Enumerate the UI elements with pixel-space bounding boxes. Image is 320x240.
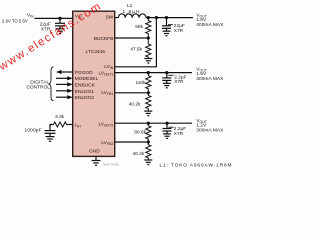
svg-text:L1: TOKO A960AW-1R8M: L1: TOKO A960AW-1R8M	[160, 163, 232, 169]
wire GND pin	[95, 156, 97, 160]
arrow PGOOD (out)	[56, 70, 73, 74]
ground R6	[144, 160, 152, 165]
arrow ENLDO1 (in)	[56, 89, 73, 93]
wire ITH	[67, 124, 73, 126]
svg-text:X7R: X7R	[174, 28, 184, 34]
resistor R5 80.6k	[134, 123, 151, 142]
capacitor CIN 22uF X7R	[40, 18, 65, 32]
wire LVOUT1 rail 1.5V	[115, 72, 192, 74]
ground CIN	[56, 29, 65, 34]
svg-text:MODESEL: MODESEL	[75, 76, 99, 82]
resistor R4 40.2k	[129, 93, 151, 111]
svg-text:ENLDO2: ENLDO2	[75, 95, 95, 101]
wire LVOUT2 rail 1.2V	[115, 122, 192, 124]
junction LVOUT2/R5	[147, 122, 150, 125]
arrow ENBUCK (in)	[56, 82, 73, 86]
brace digital control	[49, 67, 54, 101]
capacitor C4 1000pF	[25, 128, 56, 137]
junction rail/R1	[147, 16, 150, 19]
node VOUT 1.8V label	[196, 12, 224, 27]
svg-text:110k: 110k	[135, 80, 146, 86]
node VOUT 1.2V label	[196, 118, 224, 133]
arrow MODESEL (in)	[56, 76, 73, 80]
junction rail/LVIN drop	[155, 16, 158, 19]
capacitor COUT1 22uF X7R	[162, 18, 185, 34]
svg-text:GND: GND	[89, 148, 100, 154]
wire LVFB2	[115, 141, 149, 143]
svg-text:SW: SW	[106, 14, 114, 20]
svg-text:300mA MAX: 300mA MAX	[196, 127, 224, 133]
svg-text:ENBUCK: ENBUCK	[75, 82, 96, 88]
ground R2	[144, 59, 152, 64]
junction LVFB2 node	[147, 140, 150, 143]
svg-text:3446 TA01b: 3446 TA01b	[103, 163, 119, 167]
ground COUT1	[163, 31, 171, 36]
ground R4	[144, 111, 152, 116]
svg-text:2.9V TO 5.5V: 2.9V TO 5.5V	[2, 19, 28, 24]
wire BUCKFB	[115, 37, 149, 39]
capacitor C3 2.2uF X7R	[163, 123, 187, 137]
svg-text:L1: L1	[127, 3, 133, 9]
resistor R3 110k	[135, 73, 150, 93]
svg-text:PGOOD: PGOOD	[75, 70, 93, 76]
svg-text:X7R: X7R	[174, 79, 184, 85]
svg-text:400mA MAX: 400mA MAX	[196, 22, 224, 28]
svg-text:X7R: X7R	[174, 131, 184, 137]
svg-text:BUCKFB: BUCKFB	[94, 36, 113, 42]
svg-text:40.2k: 40.2k	[129, 102, 141, 108]
wire LVIN to 1.8V rail	[115, 18, 157, 67]
svg-text:59k: 59k	[135, 24, 143, 30]
label DIGITAL CONTROL	[26, 80, 50, 91]
junction LVFB1 node	[147, 91, 150, 94]
svg-text:CONTROL: CONTROL	[26, 85, 50, 91]
wire buck output rail 1.8V	[146, 17, 193, 19]
svg-text:40.2k: 40.2k	[133, 151, 145, 157]
resistor R1 59k	[135, 18, 151, 38]
svg-text:1000pF: 1000pF	[25, 128, 42, 134]
wire SW to inductor	[115, 17, 119, 19]
junction rail/COUT1	[165, 16, 168, 19]
ground C4	[46, 137, 55, 142]
junction VIN/CIN	[58, 17, 61, 20]
junction BUCKFB node	[147, 36, 150, 39]
resistor R6 40.2k	[133, 142, 151, 160]
resistor R7 3.3k	[54, 114, 67, 127]
arrow ENLDO2 (in)	[56, 95, 73, 99]
svg-text:80.6k: 80.6k	[134, 130, 146, 136]
wire LVFB1	[115, 92, 149, 94]
junction LVOUT1/C2	[165, 71, 168, 74]
wire VIN	[35, 17, 73, 19]
ground C3	[163, 134, 171, 139]
svg-text:ENLDO1: ENLDO1	[75, 89, 95, 95]
resistor R2 47.5k	[130, 38, 151, 58]
svg-text:DIGITAL: DIGITAL	[30, 80, 49, 86]
ground GND pin	[92, 161, 120, 167]
IC U1 LTC3446	[73, 11, 115, 156]
node VOUT 1.5V label	[196, 66, 224, 82]
junction LVOUT2/C3	[165, 122, 168, 125]
inductor L1 1.8uH	[118, 3, 146, 18]
ground C2	[163, 83, 171, 88]
svg-text:47.5k: 47.5k	[130, 47, 142, 53]
wire ITH to C4	[50, 125, 54, 131]
capacitor C2 2.2uF X7R	[162, 73, 186, 86]
svg-text:LTC3446: LTC3446	[86, 49, 106, 55]
svg-text:300mA MAX: 300mA MAX	[196, 76, 224, 82]
svg-text:3.3k: 3.3k	[55, 114, 65, 120]
junction LVOUT1/R3	[147, 71, 150, 74]
svg-text:1.8µH: 1.8µH	[123, 9, 141, 15]
